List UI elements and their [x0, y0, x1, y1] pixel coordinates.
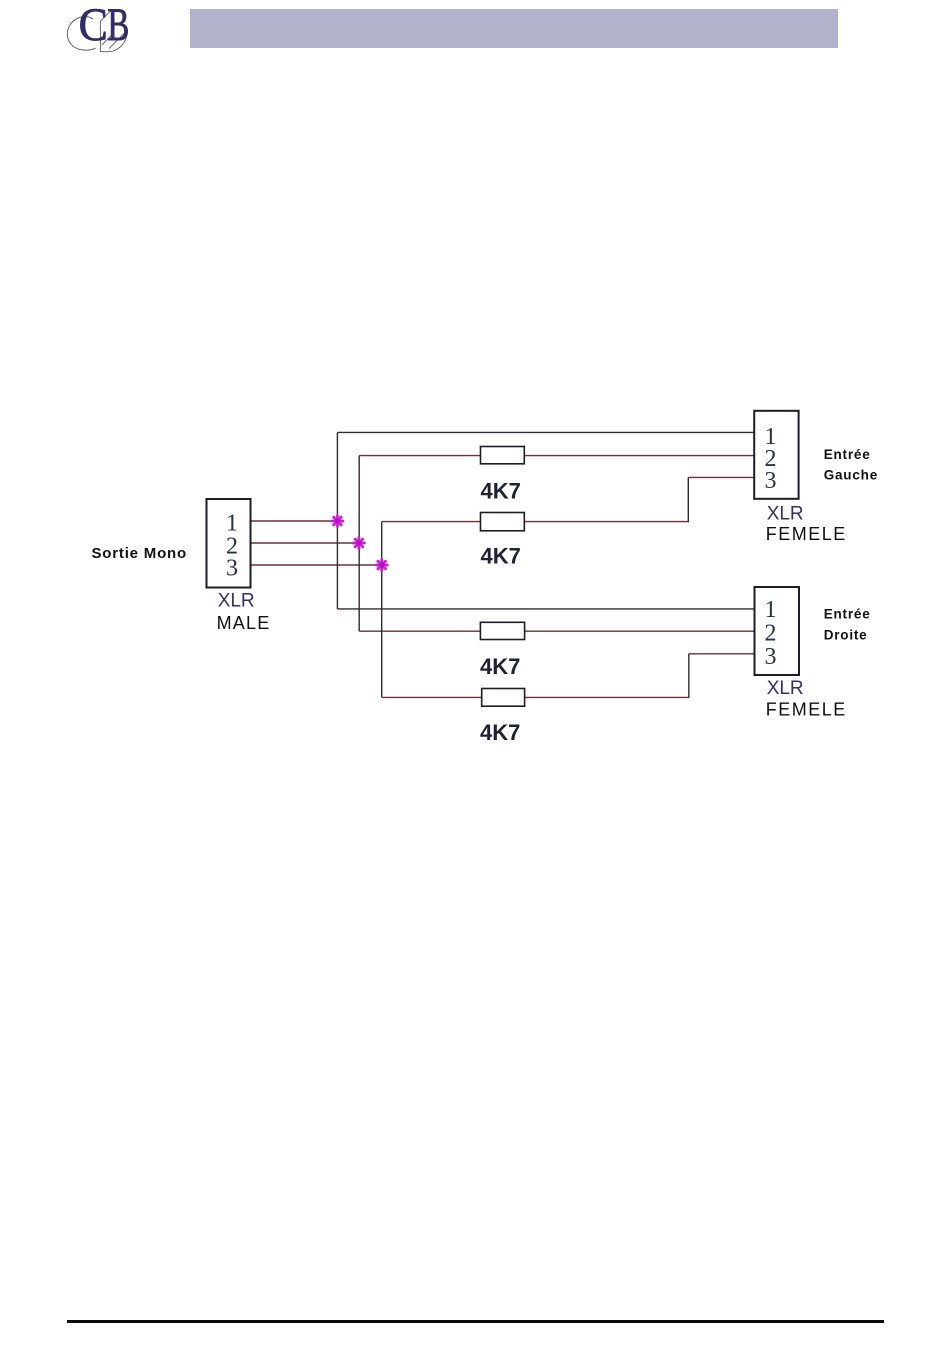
svg-text:Droite: Droite [824, 628, 868, 643]
wire R1 to female1 pin2 [524, 455, 754, 457]
header bar [190, 9, 838, 48]
wire male pin3 to node C [251, 564, 382, 566]
svg-text:4K7: 4K7 [480, 720, 520, 745]
logo CB [62, 2, 140, 60]
svg-text:4K7: 4K7 [480, 654, 520, 679]
resistor R1 4K7 [481, 447, 525, 464]
svg-text:1: 1 [765, 597, 777, 623]
svg-text:3: 3 [226, 555, 238, 581]
connector XLR male box [207, 499, 251, 588]
svg-text:2: 2 [765, 621, 777, 647]
connector XLR female lower box [755, 587, 800, 675]
wire rail to R3 [359, 630, 480, 632]
wire corner vertical upper [687, 477, 689, 522]
wire corner vertical lower [688, 654, 690, 698]
resistor R2 4K7 [481, 513, 525, 531]
wire rail2 to R1 [359, 455, 480, 457]
svg-text:MALE: MALE [217, 613, 271, 633]
svg-text:FEMELE: FEMELE [766, 699, 847, 719]
logo outline shadow B stem [100, 10, 126, 52]
wire R2 to corner [524, 521, 688, 523]
wire vertical bus 1 [336, 432, 338, 609]
node A junction [332, 515, 344, 527]
wire bottom rail to female2 pin1 [337, 608, 754, 610]
wire vertical bus 3 [381, 522, 383, 698]
logo outline shadow C [67, 17, 95, 51]
wire R4 to corner lower [525, 696, 689, 698]
svg-text:XLR: XLR [767, 504, 804, 525]
logo outline connector diagonal 2 [109, 33, 125, 49]
svg-text:4K7: 4K7 [481, 479, 521, 504]
wire bus3 to R4 [382, 696, 482, 698]
svg-text:XLR: XLR [218, 590, 255, 611]
svg-text:XLR: XLR [767, 678, 804, 699]
footer rule [67, 1320, 884, 1323]
wire vertical bus 2 [358, 456, 360, 632]
wire top rail to female1 pin1 [337, 431, 754, 433]
wire bus3 to R2 [382, 521, 481, 523]
svg-text:Gauche: Gauche [824, 468, 878, 483]
wire corner to female2 pin3 [689, 653, 755, 655]
svg-text:3: 3 [765, 468, 777, 494]
node C junction [376, 559, 388, 571]
svg-text:4K7: 4K7 [481, 544, 521, 569]
svg-text:Entrée: Entrée [824, 606, 871, 621]
svg-text:Sortie Mono: Sortie Mono [92, 545, 187, 562]
logo letter C [79, 0, 108, 51]
resistor R3 4K7 [480, 622, 524, 639]
svg-text:3: 3 [765, 644, 777, 670]
svg-text:FEMELE: FEMELE [766, 524, 847, 544]
resistor R4 4K7 [482, 689, 525, 707]
logo letter B [107, 0, 129, 51]
wire male pin1 to node A [251, 520, 338, 522]
wire male pin2 to node B [251, 542, 359, 544]
svg-text:Entrée: Entrée [824, 447, 871, 462]
connector XLR female upper box [754, 411, 798, 499]
node B junction [353, 537, 365, 549]
wire R3 to female2 pin2 [525, 630, 755, 632]
wire corner to female1 pin3 [688, 476, 754, 478]
svg-text:1: 1 [226, 510, 238, 536]
logo outline connector diagonal 1 [102, 34, 112, 44]
